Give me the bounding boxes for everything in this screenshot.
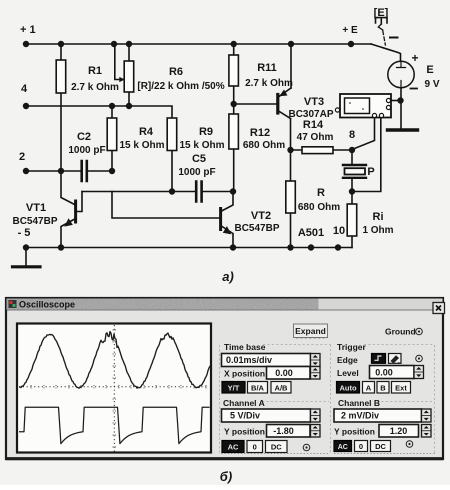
svg-text:DC: DC — [375, 442, 386, 451]
ground left — [25, 248, 27, 267]
svg-text:1.20: 1.20 — [390, 426, 408, 436]
svg-text:Edge: Edge — [337, 355, 358, 365]
svg-text:2.7 k Ohm: 2.7 k Ohm — [245, 78, 293, 89]
svg-text:0.01ms/div: 0.01ms/div — [226, 355, 272, 365]
node dot 5 — [231, 41, 237, 47]
trigger mode buttons — [337, 382, 360, 394]
resistor R4 — [107, 118, 117, 151]
channel A sine trace — [19, 332, 210, 389]
Expand button — [294, 324, 328, 338]
transistor VT1 BC547BP — [74, 201, 77, 222]
instrument oscilloscope icon — [340, 94, 391, 118]
vertical dotted cursor — [113, 325, 115, 452]
node dot 21 — [23, 244, 29, 250]
capacitor C2 — [82, 161, 87, 181]
svg-text:0: 0 — [253, 443, 257, 452]
node dot 10 — [126, 103, 132, 109]
YT BA AB buttons — [222, 382, 245, 394]
svg-text:Trigger: Trigger — [337, 342, 367, 352]
node dot 8 — [23, 103, 29, 109]
wire VT2 base branch — [112, 192, 220, 219]
svg-text:а): а) — [222, 269, 234, 284]
wire R14 leads — [291, 149, 353, 151]
svg-text:BC547BP: BC547BP — [12, 216, 57, 227]
wire VT3 emitter from rail — [290, 44, 292, 88]
ground right — [388, 128, 418, 131]
transistor VT2 BC547BP — [219, 209, 222, 230]
svg-text:15 k Ohm: 15 k Ohm — [179, 140, 224, 151]
switch [E] key symbol — [376, 18, 388, 24]
svg-text:+ E: + E — [342, 25, 358, 36]
crystal P — [343, 164, 366, 166]
wire top rail — [26, 43, 371, 45]
node dot 6 — [288, 41, 294, 47]
svg-text:Channel A: Channel A — [223, 398, 265, 408]
svg-text:Y position: Y position — [224, 427, 265, 437]
resistor R9 — [167, 118, 177, 151]
svg-text:680 Ohm: 680 Ohm — [298, 202, 340, 213]
node dot 20 — [397, 97, 403, 103]
svg-text:P: P — [367, 166, 374, 178]
wire base rail y192 VT1 to C5 — [82, 191, 196, 193]
node dot 25 — [308, 244, 314, 250]
svg-text:VT3: VT3 — [304, 96, 324, 108]
AC 0 DC buttons A — [222, 441, 244, 453]
wire terminal-2 to C2 — [26, 170, 81, 172]
svg-text:Ground: Ground — [385, 327, 416, 337]
bottom group dashes — [221, 453, 435, 455]
wire terminal-4 rail — [26, 106, 172, 118]
svg-text:R11: R11 — [257, 62, 277, 74]
wire C5 right to VT2 collector node — [203, 191, 233, 193]
node dot 22 — [58, 244, 64, 250]
wire Ri bottom — [351, 236, 353, 248]
node dot 2 — [58, 41, 64, 47]
svg-text:Time base: Time base — [224, 342, 266, 352]
node dot 26 — [335, 244, 341, 250]
svg-text:R12: R12 — [250, 127, 270, 139]
AC 0 DC buttons B — [334, 441, 352, 452]
svg-text:1000 pF: 1000 pF — [68, 145, 105, 156]
wire R6 top — [128, 44, 130, 61]
wire R-680 top — [290, 150, 292, 181]
svg-text:-1.80: -1.80 — [273, 426, 294, 436]
svg-text:5 V/Div: 5 V/Div — [230, 411, 260, 421]
wire C2 to R4 bottom node — [88, 150, 113, 171]
svg-text:2.7 k Ohm: 2.7 k Ohm — [71, 82, 119, 93]
wire switch to battery — [371, 44, 401, 61]
svg-text:R4: R4 — [139, 126, 154, 138]
svg-text:0.00: 0.00 — [375, 368, 393, 378]
svg-text:Ri: Ri — [373, 211, 384, 223]
node dot 11 — [23, 168, 29, 174]
wire instrument terminal A to node8 — [352, 117, 375, 150]
wire R-680 bottom — [290, 213, 292, 248]
wire node8 to crystal top — [351, 150, 353, 164]
node dot 12 — [58, 168, 64, 174]
axis ticks horizontal — [31, 385, 206, 389]
wire R6 wiper — [115, 44, 120, 80]
horizontal dotted axis — [19, 386, 209, 388]
svg-text:Auto: Auto — [339, 383, 356, 392]
svg-text:A: A — [366, 383, 372, 392]
transistor VT3 BC307AP (PNP) — [276, 95, 279, 114]
wire R11 top — [233, 44, 235, 55]
title bar icon — [9, 300, 17, 308]
svg-text:AC: AC — [338, 444, 348, 451]
wire battery minus to ground — [400, 88, 402, 129]
svg-text:+: + — [411, 51, 418, 65]
waveform display frame — [17, 324, 211, 453]
node dot 9 — [109, 103, 115, 109]
svg-text:C2: C2 — [77, 131, 91, 143]
svg-text:[E]: [E] — [374, 7, 389, 19]
svg-text:VT1: VT1 — [26, 202, 46, 214]
channel B square trace — [19, 407, 210, 443]
svg-text:Expand: Expand — [295, 326, 326, 336]
resistor R11 — [229, 55, 239, 86]
wire R6 bottom — [128, 92, 130, 106]
svg-text:VT2: VT2 — [251, 210, 271, 222]
wire crystal bottom to node — [351, 179, 353, 192]
svg-text:[R]/22 k Ohm /50%: [R]/22 k Ohm /50% — [137, 81, 224, 92]
wire R1 bottom to node2 — [60, 93, 62, 171]
svg-text:A/B: A/B — [275, 383, 289, 392]
wire R4 top — [111, 106, 113, 118]
svg-text:AC: AC — [228, 443, 239, 452]
close button — [433, 303, 445, 314]
potentiometer R6 — [124, 61, 134, 92]
resistor R — [286, 181, 296, 213]
svg-text:- 5: - 5 — [18, 227, 31, 239]
node dot 15 — [230, 188, 236, 194]
svg-text:0: 0 — [359, 442, 363, 451]
svg-text:680 Ohm: 680 Ohm — [243, 140, 285, 151]
oscilloscope window frame — [6, 298, 443, 459]
node dot 18 — [349, 147, 355, 153]
svg-text:X position: X position — [224, 369, 265, 379]
wire R1 top — [60, 44, 62, 60]
wire VT3 collector down — [290, 119, 292, 151]
wire ground rail bottom — [26, 247, 352, 249]
node dot 1 — [23, 41, 29, 47]
resistor R12 — [229, 114, 239, 149]
svg-text:R9: R9 — [199, 126, 213, 138]
node dot 3 — [111, 41, 117, 47]
svg-text:Ext: Ext — [395, 383, 407, 392]
capacitor C5 — [196, 182, 201, 202]
node dot 13 — [109, 168, 115, 174]
resistor R14 — [302, 147, 333, 154]
svg-text:4: 4 — [21, 83, 28, 95]
svg-text:A501: A501 — [298, 227, 324, 239]
node dot 16 — [231, 101, 237, 107]
svg-text:15 k Ohm: 15 k Ohm — [119, 140, 164, 151]
wire Ri top — [351, 192, 353, 205]
node dot 4 — [126, 41, 132, 47]
svg-text:E: E — [426, 64, 433, 76]
svg-text:47 Ohm: 47 Ohm — [297, 132, 334, 143]
node dot 17 — [287, 147, 293, 153]
battery E 9V — [388, 61, 414, 87]
wire R9 bottom — [171, 150, 173, 192]
wire R11 bottom / VT3 base node — [234, 86, 277, 114]
svg-text:1000 pF: 1000 pF — [178, 167, 215, 178]
svg-text:B: B — [380, 383, 386, 392]
svg-text:BC547BP: BC547BP — [234, 223, 279, 234]
svg-text:9 V: 9 V — [424, 79, 439, 90]
svg-text:DC: DC — [271, 443, 282, 452]
wire instrument right terminals to battery line — [391, 100, 401, 102]
node dot 14 — [169, 188, 175, 194]
svg-text:+ 1: + 1 — [20, 24, 36, 36]
svg-text:Y/T: Y/T — [228, 383, 240, 392]
svg-text:1 Ohm: 1 Ohm — [362, 225, 393, 236]
svg-text:Oscilloscope: Oscilloscope — [19, 300, 75, 310]
svg-text:R6: R6 — [169, 66, 183, 78]
svg-text:R1: R1 — [88, 65, 102, 77]
svg-text:б): б) — [220, 469, 232, 484]
node dot 19 — [349, 188, 355, 194]
node dot 24 — [287, 244, 293, 250]
wire R12 bottom to node — [233, 149, 235, 192]
svg-text:R14: R14 — [303, 119, 324, 131]
group borders — [220, 339, 435, 454]
cursor ticks — [113, 330, 116, 447]
svg-text:R: R — [317, 187, 325, 199]
svg-text:Level: Level — [337, 368, 359, 378]
svg-text:C5: C5 — [192, 153, 206, 165]
svg-text:0.00: 0.00 — [275, 368, 293, 378]
svg-text:2 mV/Div: 2 mV/Div — [341, 411, 379, 421]
svg-text:10: 10 — [333, 225, 345, 237]
potentiometer R6 wiper arrowhead — [119, 77, 125, 82]
svg-text:2: 2 — [19, 151, 25, 163]
svg-text:Y position: Y position — [334, 427, 375, 437]
wire instrument terminal B down — [352, 117, 381, 192]
resistor Ri — [347, 204, 357, 236]
svg-text:8: 8 — [349, 129, 355, 141]
node dot 23 — [230, 244, 236, 250]
svg-text:B/A: B/A — [251, 383, 265, 392]
node dot 7 — [348, 41, 354, 47]
resistor R1 — [56, 60, 65, 93]
svg-text:Channel B: Channel B — [338, 398, 380, 408]
